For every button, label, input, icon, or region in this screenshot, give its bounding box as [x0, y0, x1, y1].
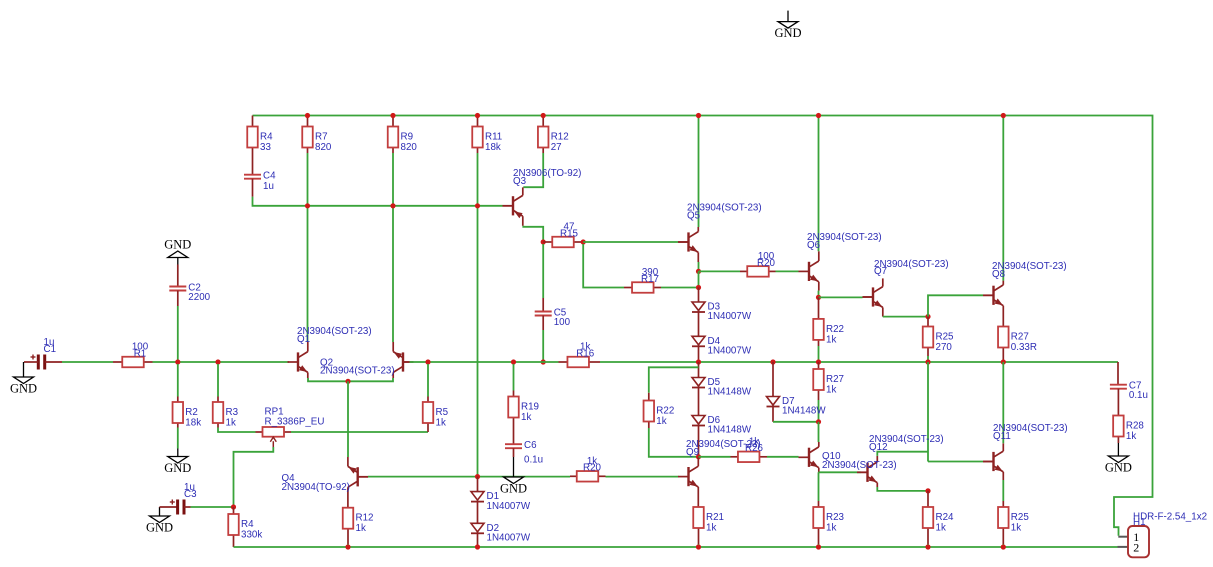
resistor R7	[302, 116, 313, 154]
ground	[1108, 443, 1128, 463]
wire emitter rail	[308, 378, 393, 381]
wire R20 to Q6 base	[776, 270, 799, 272]
capacitor C3	[170, 500, 184, 515]
wire ground bottom rail	[234, 546, 1118, 548]
svg-text:GND: GND	[146, 521, 173, 535]
lead C6 bottom	[513, 448, 515, 457]
svg-text:R3: R3	[226, 407, 239, 418]
wire Q8 collector up	[1002, 116, 1004, 281]
junction	[816, 295, 821, 300]
junction	[816, 419, 821, 424]
svg-text:R2: R2	[185, 407, 198, 418]
svg-text:R24: R24	[936, 512, 955, 523]
svg-text:R7: R7	[315, 132, 328, 143]
svg-text:27: 27	[551, 142, 562, 153]
svg-text:1N4148W: 1N4148W	[708, 425, 752, 436]
junction	[696, 544, 701, 549]
wire Q4 base stub	[358, 476, 368, 478]
wire Q6 collector up	[818, 116, 820, 252]
svg-text:100: 100	[554, 317, 571, 328]
wire Q8 base stub	[983, 294, 994, 296]
resistor R9	[388, 116, 399, 154]
resistor R25 1k	[998, 507, 1009, 544]
resistor R28	[1113, 416, 1124, 444]
svg-text:1N4007W: 1N4007W	[708, 346, 752, 357]
lead D7 bottom	[772, 407, 774, 422]
svg-text:R1: R1	[134, 348, 147, 359]
wire node A to C5	[542, 244, 544, 298]
resistor R26	[731, 452, 768, 463]
svg-text:R5: R5	[436, 407, 449, 418]
ground	[14, 362, 34, 384]
wire Q7 emitter	[883, 316, 928, 318]
svg-text:1N4148W: 1N4148W	[708, 387, 752, 398]
svg-text:1N4148W: 1N4148W	[782, 406, 826, 417]
svg-text:2N3904(TO-92): 2N3904(TO-92)	[282, 482, 350, 493]
svg-text:0.1u: 0.1u	[1129, 390, 1148, 401]
svg-text:1u: 1u	[263, 181, 274, 192]
svg-text:R12: R12	[356, 513, 374, 524]
wire R22 right to rail	[818, 346, 820, 362]
svg-text:Q6: Q6	[807, 240, 821, 251]
svg-text:Q12: Q12	[869, 442, 888, 453]
resistor R12	[538, 116, 549, 154]
wire Q5 collector up	[698, 116, 700, 228]
wire node B down to R17	[583, 244, 624, 288]
resistor R16	[559, 357, 601, 368]
svg-text:820: 820	[401, 142, 418, 153]
lead C7 top	[1117, 362, 1119, 385]
junction	[925, 488, 930, 493]
svg-text:1k: 1k	[436, 418, 446, 429]
capacitor C6	[505, 444, 522, 448]
wire +V top rail	[253, 116, 1153, 536]
diode D3	[692, 301, 705, 312]
wire R17 to D3 node	[661, 287, 699, 289]
potentiometer RP1	[256, 427, 292, 447]
junction	[305, 113, 310, 118]
wire rail down to Q11 col	[927, 362, 929, 462]
transistor Q10 2N3904	[799, 442, 819, 472]
transistor Q3 2N3906	[503, 187, 523, 225]
wire to Q11 base	[928, 461, 983, 463]
lead C7-R28	[1117, 389, 1119, 416]
junction	[541, 239, 546, 244]
junction	[1001, 544, 1006, 549]
svg-text:Q8: Q8	[992, 269, 1006, 280]
lead D6 bottom	[698, 426, 700, 457]
resistor R27 right	[813, 362, 824, 400]
lead C5 bottom	[542, 316, 544, 331]
capacitor C7	[1110, 385, 1127, 389]
svg-text:0.33R: 0.33R	[1011, 342, 1037, 353]
junction	[816, 359, 821, 364]
svg-text:Q3: Q3	[513, 176, 527, 187]
svg-text:2N3904(SOT-23): 2N3904(SOT-23)	[320, 366, 395, 377]
wire R1 to Q1 base	[153, 361, 290, 363]
wire rail to R22 left	[649, 367, 699, 393]
wire C1 to R1	[62, 361, 113, 363]
svg-text:R21: R21	[706, 512, 724, 523]
transistor Q1 2N3904	[288, 342, 308, 378]
resistor R17	[624, 282, 661, 293]
wire Q12 base stub	[861, 471, 868, 473]
resistor R21	[693, 507, 704, 544]
svg-text:C6: C6	[524, 440, 537, 451]
svg-text:R27: R27	[826, 374, 844, 385]
transistor Q9 2N3904	[678, 457, 698, 507]
wire Q2 base to R16	[410, 361, 559, 363]
svg-text:R20: R20	[583, 463, 602, 474]
junction	[305, 203, 310, 208]
svg-text:R_3386P_EU: R_3386P_EU	[265, 417, 325, 428]
junction	[345, 379, 350, 384]
junction	[696, 113, 701, 118]
wire C3 to node	[191, 506, 234, 508]
svg-text:R4: R4	[241, 519, 254, 530]
wire rail to R19	[513, 364, 515, 391]
svg-text:1k: 1k	[706, 523, 716, 534]
junction	[231, 504, 236, 509]
svg-text:1k: 1k	[521, 412, 531, 423]
wire mid rail right	[600, 361, 1118, 363]
junction	[696, 454, 701, 459]
wire R26 to Q10 base	[767, 456, 799, 458]
wire R20 to Q9 base	[606, 476, 679, 478]
wire Q11 collector up	[1002, 362, 1004, 443]
wire rail to R3	[217, 364, 219, 397]
wire R23 to bottom rail	[818, 544, 820, 547]
diode D1	[471, 491, 484, 502]
wire second rail	[253, 197, 503, 206]
resistor R25 270	[923, 317, 934, 356]
junction	[816, 544, 821, 549]
svg-text:18k: 18k	[185, 418, 201, 429]
lead C3 left	[160, 506, 178, 508]
resistor R4 330k	[228, 507, 239, 547]
lead D3 top	[698, 288, 700, 303]
svg-text:R26: R26	[745, 443, 764, 454]
wire Q12 collector	[877, 452, 928, 456]
junction	[696, 285, 701, 290]
transistor Q2 2N3904	[393, 342, 413, 378]
lead R25 top	[1002, 501, 1004, 507]
wire R24 to bottom rail	[927, 544, 929, 547]
svg-text:18k: 18k	[485, 142, 501, 153]
wire R2 to gnd	[177, 428, 179, 449]
junction	[541, 359, 546, 364]
diode D7	[767, 396, 780, 407]
svg-text:1k: 1k	[356, 523, 366, 534]
junction	[1001, 359, 1006, 364]
wire R22 left down	[649, 428, 699, 457]
wire Q10 emitter split	[819, 471, 862, 473]
junction	[425, 359, 430, 364]
resistor R2	[173, 397, 184, 428]
svg-text:H1: H1	[1133, 517, 1146, 528]
wire Q3 emitter to node A	[523, 226, 543, 242]
ground	[168, 449, 188, 464]
lead D5 top	[698, 362, 700, 378]
svg-text:GND: GND	[774, 26, 801, 40]
resistor R12 1k	[343, 508, 354, 544]
transistor Q11 2N3904	[983, 443, 1003, 480]
junction	[816, 113, 821, 118]
svg-text:R11: R11	[485, 132, 502, 143]
wire Q11 emitter down	[1002, 480, 1004, 501]
wire R21 to bottom rail	[698, 544, 700, 547]
junction	[475, 203, 480, 208]
lead C2 top	[177, 265, 179, 287]
transistor Q5 2N3904	[678, 227, 698, 262]
wire R25 to rail	[927, 356, 929, 362]
svg-text:Q9: Q9	[686, 447, 699, 458]
svg-text:1k: 1k	[826, 334, 836, 345]
transistor Q12 2N3904	[857, 456, 877, 487]
wire Q10 collector	[818, 422, 820, 442]
connector H1	[1118, 526, 1150, 557]
svg-text:270: 270	[936, 342, 953, 353]
svg-text:Q1: Q1	[297, 334, 310, 345]
wire C5 to mid rail	[542, 330, 544, 362]
wire Q3 base stub	[503, 205, 514, 207]
svg-text:R25: R25	[936, 332, 955, 343]
svg-text:R22: R22	[826, 324, 844, 335]
resistor R4	[247, 116, 258, 175]
wire R7 col	[307, 153, 309, 342]
wire wiper down	[234, 447, 274, 507]
wire Q6 emitter down	[818, 291, 820, 298]
resistor R11	[472, 116, 483, 154]
transistor Q4 2N3904	[348, 457, 368, 508]
svg-text:R12: R12	[551, 132, 569, 143]
svg-text:R17: R17	[641, 274, 659, 285]
diode D2	[471, 522, 484, 533]
ground	[504, 457, 524, 484]
junction	[1001, 113, 1006, 118]
junction	[925, 544, 930, 549]
svg-text:1k: 1k	[656, 416, 666, 427]
lead D1-D2	[477, 502, 479, 524]
svg-text:GND: GND	[10, 382, 37, 396]
svg-text:R28: R28	[1126, 421, 1145, 432]
junction	[925, 314, 930, 319]
lead D1 top	[477, 477, 479, 492]
transistor Q6 2N3904	[799, 251, 819, 290]
svg-text:1k: 1k	[1126, 431, 1136, 442]
wire R25 to bottom rail	[1002, 544, 1004, 547]
wire Q10 emitter down	[818, 472, 820, 501]
junction	[511, 359, 516, 364]
wire node to Q7 base	[819, 296, 863, 298]
capacitor C2	[169, 287, 186, 291]
wire Q12 emitter	[877, 487, 928, 491]
svg-text:Q11: Q11	[993, 431, 1011, 442]
wire node to R20	[699, 270, 741, 272]
lead C1 right	[45, 361, 62, 363]
wire R3 to pot rail	[218, 428, 256, 433]
junction	[215, 359, 220, 364]
wire R9 col	[392, 153, 394, 342]
lead D7 top	[772, 362, 774, 397]
svg-text:330k: 330k	[241, 530, 262, 541]
junction	[925, 359, 930, 364]
diode D6	[692, 415, 705, 426]
svg-text:Q7: Q7	[874, 266, 887, 277]
svg-text:0.1u: 0.1u	[524, 455, 543, 466]
svg-text:R20: R20	[757, 258, 776, 269]
resistor R1	[113, 357, 153, 368]
svg-text:1k: 1k	[936, 523, 946, 534]
wire rail to R2	[177, 364, 179, 397]
wire D3 node col	[698, 271, 700, 287]
wire rail to R5	[427, 364, 429, 397]
svg-text:1N4007W: 1N4007W	[708, 311, 752, 322]
svg-text:2200: 2200	[188, 292, 210, 303]
wire R12 to bottom rail	[347, 544, 349, 547]
svg-text:R16: R16	[576, 348, 595, 359]
svg-text:R15: R15	[560, 228, 579, 239]
junction	[541, 113, 546, 118]
diode D4	[692, 335, 705, 346]
resistor R20 top	[740, 266, 776, 277]
capacitor C1	[31, 355, 45, 370]
svg-text:2: 2	[1133, 540, 1139, 554]
svg-text:1k: 1k	[826, 523, 836, 534]
junction	[475, 474, 480, 479]
svg-text:R4: R4	[260, 132, 273, 143]
junction	[475, 113, 480, 118]
svg-text:GND: GND	[500, 482, 527, 496]
ground	[778, 11, 798, 29]
wire Q4 base line	[368, 476, 570, 478]
junction	[581, 239, 586, 244]
svg-text:R22: R22	[656, 406, 674, 417]
resistor R5	[423, 397, 434, 433]
svg-text:820: 820	[315, 142, 332, 153]
lead C2 bottom	[177, 291, 179, 307]
lead C3 right	[184, 506, 191, 508]
lead D5-D6	[698, 388, 700, 416]
svg-text:R19: R19	[521, 402, 539, 413]
lead D3-D4	[698, 312, 700, 336]
junction	[696, 359, 701, 364]
resistor R22 right	[813, 297, 824, 346]
resistor R22 left	[644, 393, 655, 428]
lead D2 bottom	[477, 533, 479, 547]
resistor R24	[923, 491, 934, 544]
wire Q2 base stub	[403, 361, 410, 363]
wire Q7 base stub	[863, 296, 874, 298]
wire Q5 base stub	[679, 241, 689, 243]
junction	[175, 359, 180, 364]
wire node to R26	[699, 456, 731, 458]
resistor R15	[543, 237, 583, 248]
svg-text:C1: C1	[44, 344, 57, 355]
resistor R3	[213, 397, 224, 428]
svg-text:1N4007W: 1N4007W	[487, 501, 531, 512]
wire R27 to node	[818, 400, 820, 422]
resistor R23	[813, 501, 824, 544]
ground	[168, 251, 188, 265]
svg-text:1k: 1k	[826, 385, 836, 396]
junction	[770, 359, 775, 364]
wire pot to R5	[291, 431, 428, 433]
wire R11 col	[477, 153, 479, 477]
junction	[475, 544, 480, 549]
svg-text:GND: GND	[164, 238, 191, 252]
wire Q11 base stub	[983, 461, 994, 463]
capacitor C4	[244, 175, 261, 197]
diode D5	[692, 377, 705, 388]
lead C1 left	[24, 361, 38, 363]
resistor R20 1k	[570, 471, 606, 482]
svg-text:R23: R23	[826, 512, 845, 523]
lead C5 top	[542, 298, 544, 312]
svg-text:1k: 1k	[1011, 523, 1021, 534]
junction	[390, 113, 395, 118]
wire node B to Q5 base	[583, 241, 678, 243]
svg-text:C3: C3	[184, 489, 197, 500]
svg-text:R25: R25	[1011, 512, 1030, 523]
svg-text:1N4007W: 1N4007W	[487, 533, 531, 544]
wire tail	[347, 381, 349, 457]
svg-text:1k: 1k	[226, 418, 236, 429]
resistor R19	[508, 391, 519, 445]
junction	[390, 203, 395, 208]
junction	[345, 544, 350, 549]
junction	[696, 269, 701, 274]
lead D4 bottom	[698, 346, 700, 362]
wire C2 to mid rail	[177, 306, 179, 362]
svg-text:2N3904(SOT-23): 2N3904(SOT-23)	[822, 460, 897, 471]
ground	[150, 507, 170, 523]
wire R12 to Q3	[523, 153, 543, 187]
svg-text:33: 33	[260, 142, 271, 153]
wire node to Q8 base	[928, 295, 983, 316]
wire D7 to node	[773, 421, 819, 423]
svg-text:R9: R9	[401, 132, 414, 143]
svg-text:GND: GND	[1105, 461, 1132, 475]
svg-text:C4: C4	[263, 171, 276, 182]
transistor Q7 2N3904	[863, 278, 883, 316]
transistor Q8 2N3904	[983, 281, 1003, 327]
resistor R27 033	[998, 327, 1009, 363]
svg-text:GND: GND	[164, 461, 191, 475]
capacitor C5	[535, 312, 552, 316]
wire Q5 emitter down	[698, 262, 700, 271]
svg-text:R27: R27	[1011, 332, 1029, 343]
svg-text:Q5: Q5	[687, 211, 701, 222]
